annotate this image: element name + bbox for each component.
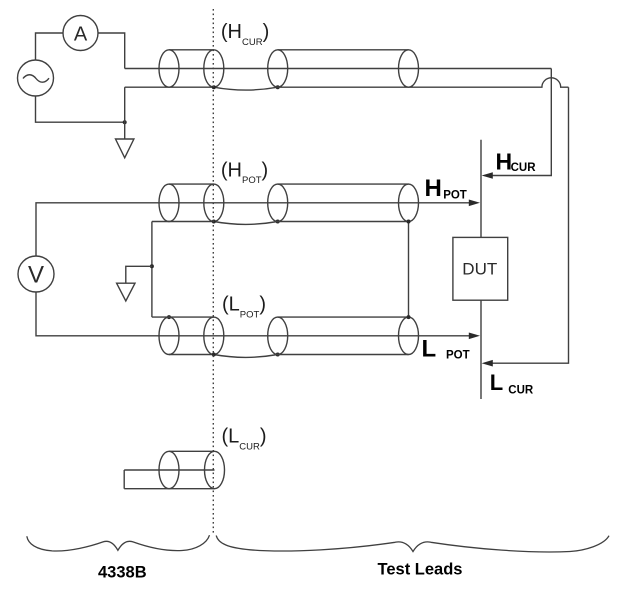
coax Lpot ellipse 3 [268, 317, 288, 354]
coax Hcur ellipse 2 [204, 50, 224, 87]
wire shield interconnect right (Hpot to Lpot leads) [408, 222, 410, 318]
coax Lcur stub center conductor [124, 469, 214, 471]
coax Hcur ellipse 1 [159, 50, 179, 87]
wire source top to ammeter left [36, 33, 64, 60]
separator dotted line [212, 9, 214, 534]
shield link curve Hpot [214, 222, 278, 225]
wire Hcur shield to Lcur arrow [490, 87, 569, 363]
brace 4338B [27, 535, 210, 551]
shield link curve Hcur [214, 87, 278, 90]
coax Hcur lead-side shield bottom with hop [278, 78, 569, 87]
wire Hcur right drop to arrow [490, 69, 551, 176]
voltmeter V [18, 256, 54, 292]
wire source bottom to junction [36, 96, 125, 122]
coax Lcur stub shield bottom [124, 488, 214, 490]
arrow L_CUR (points left at bar) [482, 360, 493, 367]
wire Hcur center conductor [125, 68, 552, 70]
svg-text:(LCUR): (LCUR) [222, 426, 267, 453]
arrow L_POT (points right at bar) [469, 333, 480, 340]
wire ammeter right down to Hcur conductor [98, 33, 125, 69]
wire ground tap [126, 266, 152, 283]
coax Lpot shield bottom instrument side [169, 354, 214, 356]
wire voltmeter bottom to Lpot conductor [36, 292, 470, 336]
ground GND1 [116, 139, 134, 158]
coax Lpot ellipse 1 [159, 317, 179, 354]
coax Hpot ellipse 1 [159, 184, 179, 221]
wire shield interconnect left (Hpot to Lpot) [151, 222, 153, 318]
coax Lcur stub left short [123, 470, 125, 489]
terminal bar [480, 140, 482, 399]
coax Hpot shield bottom instrument side [152, 221, 214, 223]
svg-text:A: A [74, 24, 88, 46]
svg-text:(HCUR): (HCUR) [221, 21, 269, 48]
svg-text:DUT: DUT [462, 260, 497, 279]
svg-text:POT: POT [443, 190, 467, 202]
coax Hpot shield top instrument side [169, 183, 214, 185]
svg-text:(HPOT): (HPOT) [221, 159, 268, 186]
coax Hcur ellipse 3 [268, 50, 288, 87]
svg-text:L: L [422, 336, 437, 363]
node junction (source return) [123, 120, 127, 124]
coax Hcur instrument-side shield top [169, 49, 214, 51]
coax Hpot ellipse 3 [268, 184, 288, 221]
coax Lcur ellipse 2 [205, 451, 225, 488]
source OSC (sine generator) [18, 60, 54, 96]
arrow H_CUR (points left at bar) [482, 172, 493, 179]
arrow H_POT (points right at bar) [469, 200, 480, 207]
node Lpot shield junction [167, 315, 171, 319]
coax Lpot lead-side shield bottom [278, 354, 409, 356]
svg-text:V: V [28, 262, 44, 289]
svg-text:CUR: CUR [508, 385, 534, 397]
coax Hpot lead-side shield bottom [278, 221, 409, 223]
ammeter A [63, 16, 98, 51]
coax Lpot lead-side shield top [278, 316, 409, 318]
coax Hpot ellipse 4 [399, 184, 419, 221]
coax Hpot lead-side shield top [278, 183, 409, 185]
brace Test Leads [216, 536, 609, 552]
node shield-ground tap [150, 264, 154, 268]
coax Hcur shield bottom (to instrument) [125, 86, 214, 88]
wire Hcur shield down to ground [124, 87, 126, 139]
svg-text:Test Leads: Test Leads [378, 561, 463, 579]
wire voltmeter top to Hpot conductor [36, 203, 470, 256]
svg-text:(LPOT): (LPOT) [222, 294, 266, 321]
svg-text:4338B: 4338B [98, 564, 147, 582]
ground GND2 [117, 283, 135, 301]
svg-text:CUR: CUR [511, 162, 537, 174]
coax Lcur stub shield top [169, 450, 215, 452]
coax Hcur lead-side shield top [278, 49, 409, 51]
DUT box [453, 237, 508, 300]
coax Lpot ellipse 2 [204, 317, 224, 354]
coax Lcur ellipse 1 [159, 451, 179, 488]
shield link curve Lpot [214, 355, 278, 358]
svg-text:L: L [490, 370, 503, 395]
coax Lpot ellipse 4 [399, 317, 419, 354]
coax Lpot shield top instrument side [152, 316, 214, 318]
coax Hcur ellipse 4 [399, 50, 419, 87]
svg-text:POT: POT [446, 349, 470, 361]
svg-text:H: H [425, 175, 442, 202]
coax Hpot ellipse 2 [204, 184, 224, 221]
